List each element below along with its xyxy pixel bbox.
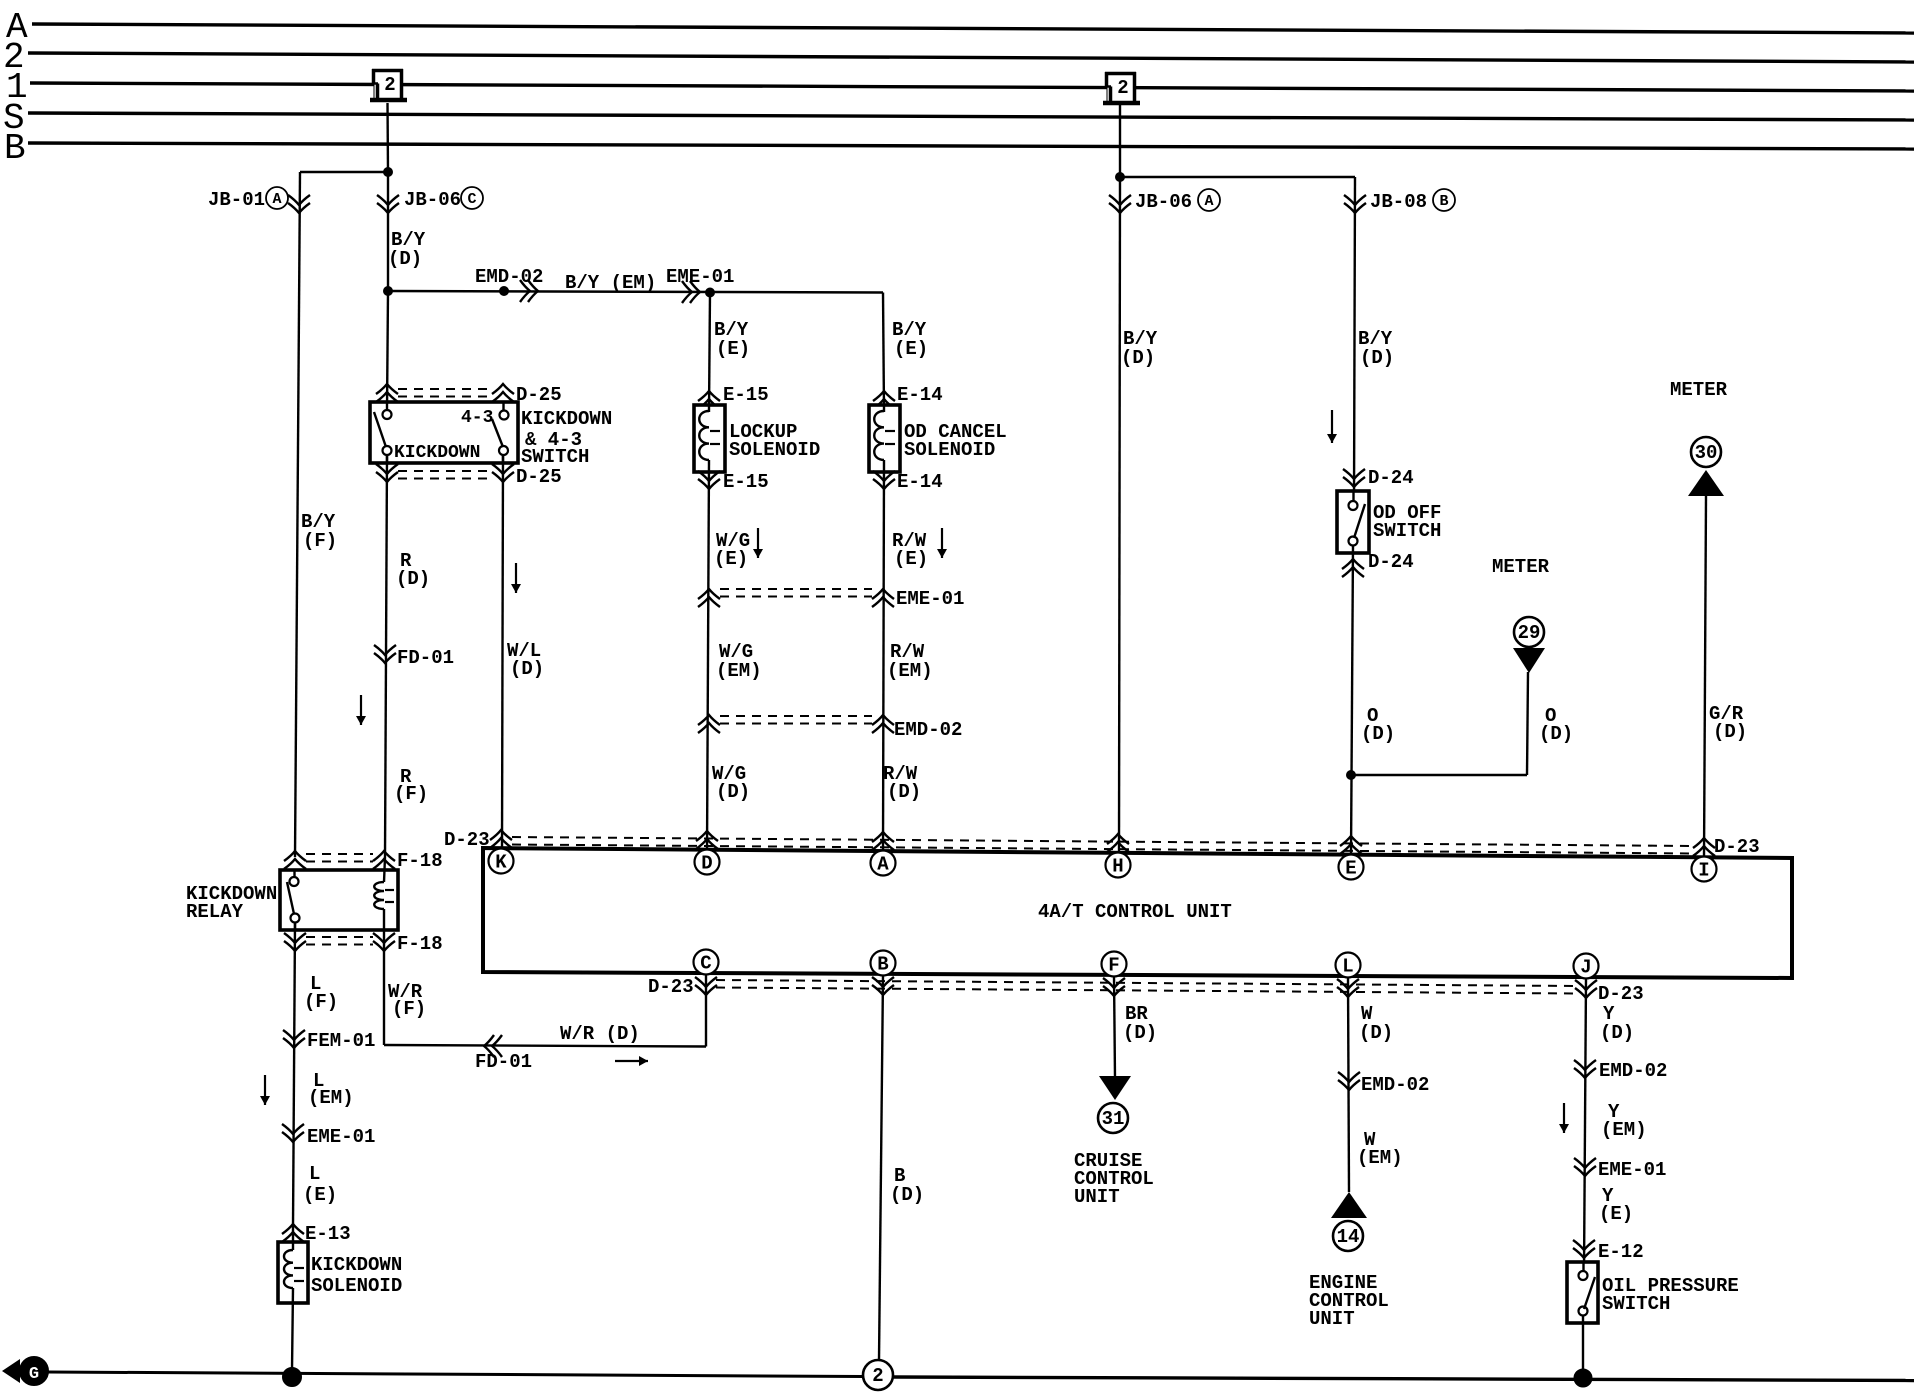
connector EMD-02 chevron on B/Y(EM) [528,280,538,302]
fuse tag 2 (left) on bus line 1 [370,69,407,100]
relay switch blade [287,882,294,914]
OD OFF switch bottom contact [1349,537,1358,546]
terminal circle 30 [1691,437,1721,467]
svg-text:EMD-02: EMD-02 [1599,1060,1667,1082]
wire W (D) from pin L [1348,977,1349,1192]
wire B/Y (D) down to OD OFF switch [1354,177,1355,501]
connector EME-01 chevron on R/W [872,589,894,599]
current arrow on Y wire [1563,1103,1565,1133]
svg-text:METER: METER [1670,379,1728,401]
svg-text:EMD-02: EMD-02 [894,719,962,741]
svg-text:E-14: E-14 [897,471,943,493]
svg-text:RELAY: RELAY [186,901,244,923]
OD OFF switch top contact [1349,501,1358,510]
connector D-25 dashed pairing (bottom) [398,470,493,472]
current arrow on W/L wire [515,563,517,593]
kickdown switch top contact [383,410,392,419]
wire G/R (D) from meter 30 to pin I [1704,496,1706,858]
connector JB-08 B chevron [1344,203,1366,213]
svg-text:(D): (D) [1600,1022,1634,1044]
svg-text:METER: METER [1492,556,1550,578]
switch box OIL PRESSURE SWITCH [1567,1262,1598,1323]
svg-text:SWITCH: SWITCH [1602,1293,1670,1315]
lockup solenoid coil ticks [710,430,720,432]
svg-text:(F): (F) [394,783,428,805]
svg-text:(EM): (EM) [887,660,933,682]
svg-text:B: B [877,954,888,976]
connector D-25 dashed pairing (top) [398,388,493,390]
connector EME-01 dashed pairing [720,588,872,590]
svg-text:(F): (F) [303,530,337,552]
svg-text:E: E [1345,858,1356,880]
pin J [1574,954,1599,979]
kickdown switch blade [374,412,386,447]
wire to kickdown switch left pin [387,291,388,410]
connector FEM-01 chevron [283,1038,305,1048]
connector D-25 chevron lower-left [376,472,398,482]
svg-text:SOLENOID: SOLENOID [729,439,820,461]
svg-text:KICKDOWN: KICKDOWN [311,1254,402,1276]
svg-text:(D): (D) [1123,1022,1157,1044]
connector D-24 chevron (top) [1343,477,1365,487]
terminal circle 14 [1333,1221,1363,1251]
svg-text:(D): (D) [1121,347,1155,369]
connector EMD-02 chevron on W/G [698,715,720,725]
svg-text:E-15: E-15 [723,384,769,406]
ground symbol G [2,1359,20,1383]
svg-text:(D): (D) [890,1184,924,1206]
svg-text:31: 31 [1102,1108,1125,1130]
pin L [1336,953,1361,978]
svg-text:E-14: E-14 [897,384,943,406]
svg-text:(D): (D) [716,781,750,803]
arrow 14 (filled, up) [1331,1192,1367,1218]
svg-text:D: D [701,853,712,875]
svg-text:(E): (E) [1599,1203,1633,1225]
wire stub inside OD OFF box top [1352,491,1354,502]
svg-text:E-13: E-13 [305,1223,351,1245]
connector F-18 chevron upper-right [373,851,395,861]
current arrow on R wire [360,695,362,725]
connector D-25 chevron upper-left [376,384,398,394]
svg-text:(D): (D) [1539,723,1573,745]
connector D-23 chevron top A [872,832,894,842]
connector FD-01 chevron on R wire [374,653,396,663]
svg-text:JB-01: JB-01 [208,189,265,211]
wire meter-29 vertical [1527,672,1528,775]
wire kickdown solenoid to ground [292,1288,293,1370]
svg-text:KICKDOWN: KICKDOWN [521,408,612,430]
connector D-23 chevron bottom C [695,985,717,995]
wire B/Y (E) to lockup solenoid [709,293,710,412]
wire B/Y (D) to pin H [1119,177,1120,854]
svg-text:EME-01: EME-01 [896,588,964,610]
connector E-14 chevron (bottom) [873,479,895,489]
connector EME-01 chevron on W/G [698,589,720,599]
pin H [1106,853,1131,878]
wire Y (D) from pin J [1584,978,1586,1271]
wire bus line B [28,143,1914,149]
svg-text:(D): (D) [887,781,921,803]
svg-text:(D): (D) [388,248,422,270]
wire jumper to JB-08 [1120,176,1355,178]
kickdown solenoid coil ticks [294,1267,304,1269]
connector EME-01 chevron on B/Y(EM) [690,281,700,303]
connector D-23 chevron top D [696,831,718,841]
connector D-23 chevron top I [1693,838,1715,848]
svg-text:(EM): (EM) [308,1087,354,1109]
OD cancel solenoid coil [874,411,884,460]
svg-text:C: C [700,953,711,975]
svg-text:F: F [1108,955,1119,977]
wire stub into lockup coil [708,405,710,412]
current arrow on W/G wire [757,528,759,558]
svg-text:D-23: D-23 [1598,983,1644,1005]
connector JB-06 C chevron [377,203,399,213]
svg-text:(D): (D) [1361,723,1395,745]
connector D-23 chevron bottom L [1337,987,1359,997]
wire stub inside switch box left top [386,402,388,411]
connector E-15 chevron (top) [698,391,720,401]
connector D-23 chevron top E [1340,836,1362,846]
wire R/W from OD cancel solenoid to pin A [883,460,884,852]
svg-text:4A/T CONTROL UNIT: 4A/T CONTROL UNIT [1038,901,1232,923]
svg-text:2: 2 [384,74,395,96]
wire bus line 2 [28,53,1914,62]
relay switch top contact [290,877,299,886]
junction dot at fuse2/JB-01 [384,168,393,177]
D-23 dashed pairing (top) [512,837,1693,846]
meter arrow 30 (filled, up) [1688,470,1724,496]
junction dot at meter-29 tap [1347,771,1356,780]
wire kickdown switch to relay coil (R) [385,455,387,857]
svg-text:(E): (E) [714,548,748,570]
4-3 switch bottom contact [499,446,508,455]
svg-text:30: 30 [1695,442,1718,464]
svg-text:D-23: D-23 [1714,836,1760,858]
svg-text:K: K [495,852,507,874]
svg-text:EME-01: EME-01 [307,1126,375,1148]
terminal circle 31 [1098,1103,1128,1133]
svg-text:H: H [1112,856,1123,878]
svg-text:EME-01: EME-01 [666,266,734,288]
svg-text:UNIT: UNIT [1074,1186,1120,1208]
wire O (D) from OD OFF switch to pin E [1351,545,1353,856]
wire oil pressure switch to ground [1582,1315,1584,1372]
pin C [694,950,719,975]
wire W/R up to pin C [705,975,707,1047]
pin K [489,849,514,874]
svg-text:JB-06: JB-06 [404,189,461,211]
connector F-18 chevron upper-left [284,851,306,861]
connector F-18 dashed pairing (top) [306,853,373,855]
svg-text:J: J [1580,957,1591,979]
wire bus line 1 [30,83,1914,91]
pin F [1102,952,1127,977]
wire stub inside relay box top [293,870,295,878]
connector D-23 chevron bottom J [1575,988,1597,998]
svg-text:SWITCH: SWITCH [521,446,589,468]
junction dot kickdown solenoid ground [283,1368,302,1387]
wire stub inside relay box bottom [294,922,296,931]
wire B (D) from pin B to ground tag [879,975,883,1360]
svg-text:EME-01: EME-01 [1598,1159,1666,1181]
svg-text:29: 29 [1518,622,1541,644]
current arrow on R/W wire [941,528,943,558]
svg-text:(EM): (EM) [716,660,762,682]
wire from fuse tag 2 left down to junction [386,103,389,172]
component box 4A/T CONTROL UNIT [483,848,1792,978]
wire W/G from lockup solenoid to pin D [707,460,709,851]
current arrow on B/Y wire [1331,410,1333,443]
junction dot at fuse2 right [1116,173,1125,182]
solenoid box KICKDOWN SOLENOID [278,1242,308,1303]
wire W/R horizontal [384,1045,706,1047]
svg-text:(E): (E) [894,548,928,570]
svg-text:FD-01: FD-01 [397,647,454,669]
terminal circle 29 [1514,617,1544,647]
svg-text:FEM-01: FEM-01 [307,1030,375,1052]
svg-text:F-18: F-18 [397,850,443,872]
wire B/Y (EM) horizontal [388,291,883,293]
svg-text:(E): (E) [716,338,750,360]
svg-text:F-18: F-18 [397,933,443,955]
connector JB-01 chevron [288,203,310,213]
svg-text:JB-06: JB-06 [1135,191,1192,213]
connector EME-01 chevron on L wire [282,1132,304,1142]
oil pressure switch top contact [1579,1271,1588,1280]
connector EMD-02 dashed pairing [720,715,872,717]
wire stub inside oil pressure box top [1582,1262,1584,1272]
OD OFF switch blade [1354,504,1365,538]
oil pressure switch bottom contact [1579,1307,1588,1316]
svg-text:D-23: D-23 [648,976,694,998]
wire ground rail left [48,1372,862,1377]
junction dot B/Y node left [384,287,393,296]
connector E-15 chevron (bottom) [698,479,720,489]
svg-text:L: L [309,1163,320,1185]
wire JB-01 horizontal jumper [300,171,388,173]
svg-text:G: G [29,1365,39,1384]
kickdown switch bottom contact [383,446,392,455]
svg-text:B/Y (EM): B/Y (EM) [565,272,656,294]
lockup solenoid coil [699,411,709,460]
connector F-18 chevron lower-right [373,941,395,951]
relay coil tick [385,889,394,891]
svg-text:(F): (F) [392,998,426,1020]
svg-text:B: B [1439,193,1448,210]
svg-text:(EM): (EM) [1357,1147,1403,1169]
pin I [1692,857,1717,882]
current arrow on L wire [264,1075,266,1105]
relay box KICKDOWN RELAY [280,870,398,930]
meter arrow 31 (filled, down) [1099,1076,1131,1100]
svg-text:A: A [272,191,281,208]
wire B/Y (E) to OD cancel solenoid [883,293,884,412]
wire L vertical below relay [293,922,295,1226]
meter arrow 29 (filled, down) [1513,648,1545,673]
svg-text:(E): (E) [303,1184,337,1206]
svg-text:W/R (D): W/R (D) [560,1023,640,1045]
connector EME-01 chevron on Y wire [1574,1166,1596,1176]
connector E-13 chevron [282,1224,304,1234]
svg-text:(F): (F) [304,991,338,1013]
pin B [871,951,896,976]
solenoid box LOCKUP SOLENOID [694,405,725,472]
svg-text:UNIT: UNIT [1309,1308,1355,1330]
svg-text:(D): (D) [1359,1022,1393,1044]
svg-text:(D): (D) [396,568,430,590]
fuse tag 2 (right) on bus line 1 [1103,72,1140,103]
relay coil [374,882,384,909]
svg-text:C: C [467,191,476,208]
ground tag circle 2 [863,1360,893,1390]
svg-text:E-12: E-12 [1598,1241,1644,1263]
svg-text:SOLENOID: SOLENOID [904,439,995,461]
svg-text:L: L [1342,956,1353,978]
D-23 dashed pairing (bottom) [716,980,1576,986]
svg-text:B: B [4,128,26,169]
svg-text:EMD-02: EMD-02 [475,266,543,288]
svg-text:EMD-02: EMD-02 [1361,1074,1429,1096]
svg-text:FD-01: FD-01 [475,1051,532,1073]
wire stub into OD cancel coil [883,405,885,412]
svg-text:JB-08: JB-08 [1370,191,1427,213]
4-3 switch top contact [500,411,509,420]
direction arrow on W/R wire [615,1060,648,1062]
wire stub inside switch box left bottom [386,454,388,464]
wire W/R (F) from relay down [383,947,385,1045]
svg-text:A: A [877,854,889,876]
svg-text:E-15: E-15 [723,471,769,493]
connector D-25 chevron upper-right [492,384,514,394]
wire from fuse tag 2 right down to junction [1119,104,1121,177]
svg-text:SOLENOID: SOLENOID [311,1275,402,1297]
relay switch bottom contact [291,914,300,923]
svg-text:(D): (D) [1360,347,1394,369]
junction dot at lockup branch [706,288,715,297]
connector E-12 chevron [1573,1248,1595,1258]
wire meter-29 horizontal [1351,774,1527,776]
svg-text:(D): (D) [1713,721,1747,743]
junction dot oil pressure switch ground [1574,1369,1592,1387]
4-3 switch blade [492,419,503,447]
svg-text:2: 2 [872,1365,883,1387]
kickdown solenoid coil lead [292,1224,294,1250]
svg-text:SWITCH: SWITCH [1373,520,1441,542]
connector EMD-02 chevron on W wire [1338,1080,1360,1090]
connector D-25 chevron lower-right [492,472,514,482]
svg-text:2: 2 [1117,77,1128,99]
connector EMD-02 chevron on R/W [872,715,894,725]
switch box KICKDOWN & 4-3 SWITCH [370,402,518,463]
connector E-14 chevron (top) [873,391,895,401]
pin D [695,850,720,875]
svg-text:D-25: D-25 [516,384,562,406]
connector D-23 chevron bottom F [1103,986,1125,996]
switch box OD OFF SWITCH [1337,491,1369,553]
connector F-18 chevron lower-left [284,941,306,951]
svg-text:(D): (D) [510,658,544,680]
wire B/Y (F) vertical (JB-01 branch) [295,172,300,857]
svg-text:14: 14 [1337,1226,1360,1248]
wire B/Y (D) vertical from junction to B/Y(EM) node [387,172,389,291]
connector D-23 chevron bottom B [872,985,894,995]
connector D-24 chevron (bottom) [1342,559,1364,569]
wire BR (D) from pin F [1114,976,1115,1078]
wire stub inside switch box right top [502,402,504,411]
svg-text:D-25: D-25 [516,466,562,488]
svg-text:D-24: D-24 [1368,467,1414,489]
wire bus line S [28,113,1914,120]
junction dot at kickdown-switch branch [500,287,509,296]
relay coil wire upper lead [384,857,385,882]
relay coil wire lower lead [383,909,385,947]
svg-text:I: I [1698,860,1709,882]
connector JB-06 A chevron [1109,203,1131,213]
connector EMD-02 chevron on Y wire [1574,1068,1596,1078]
svg-text:(E): (E) [894,338,928,360]
oil pressure switch blade [1584,1277,1595,1309]
OD cancel solenoid coil ticks [885,430,895,432]
svg-text:(EM): (EM) [1601,1119,1647,1141]
pin A [871,851,896,876]
pin E [1339,855,1364,880]
connector FD-01 chevron on W/R [484,1035,494,1057]
kickdown solenoid coil [284,1250,293,1288]
wire from 4-3 switch to pin K (W/L) [502,455,503,849]
connector D-23 chevron top H [1107,834,1129,844]
connector D-23 chevron top K [490,830,512,840]
connector F-18 dashed pairing (bottom) [306,936,373,938]
svg-text:D-24: D-24 [1368,551,1414,573]
svg-text:4-3: 4-3 [461,408,493,428]
svg-text:A: A [1204,193,1213,210]
wire stub inside switch box right bottom [502,454,504,464]
wire bus line A [32,24,1914,33]
solenoid box OD CANCEL SOLENOID [869,405,900,472]
wire ground rail right [894,1377,1914,1381]
svg-text:KICKDOWN: KICKDOWN [394,443,480,463]
